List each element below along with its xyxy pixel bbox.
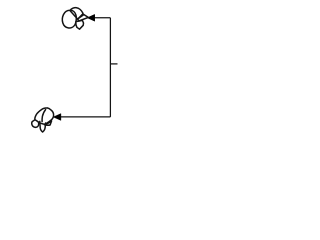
- wire top horizontal: [94, 17, 110, 19]
- node A beak: [78, 14, 89, 21]
- arrowhead bottom: [53, 114, 61, 121]
- node A top facet: [70, 8, 83, 19]
- node B blob: [35, 108, 54, 124]
- wire vertical: [109, 18, 111, 117]
- wire tick: [110, 63, 117, 65]
- node B facet line: [42, 110, 46, 122]
- node A tail: [76, 20, 84, 29]
- node B left bump: [32, 120, 39, 128]
- node A blob: [62, 10, 76, 28]
- arrowhead top: [87, 14, 95, 21]
- node B tail: [40, 121, 46, 132]
- wire bottom horizontal: [61, 116, 111, 118]
- node B bottom lip facet: [44, 121, 51, 125]
